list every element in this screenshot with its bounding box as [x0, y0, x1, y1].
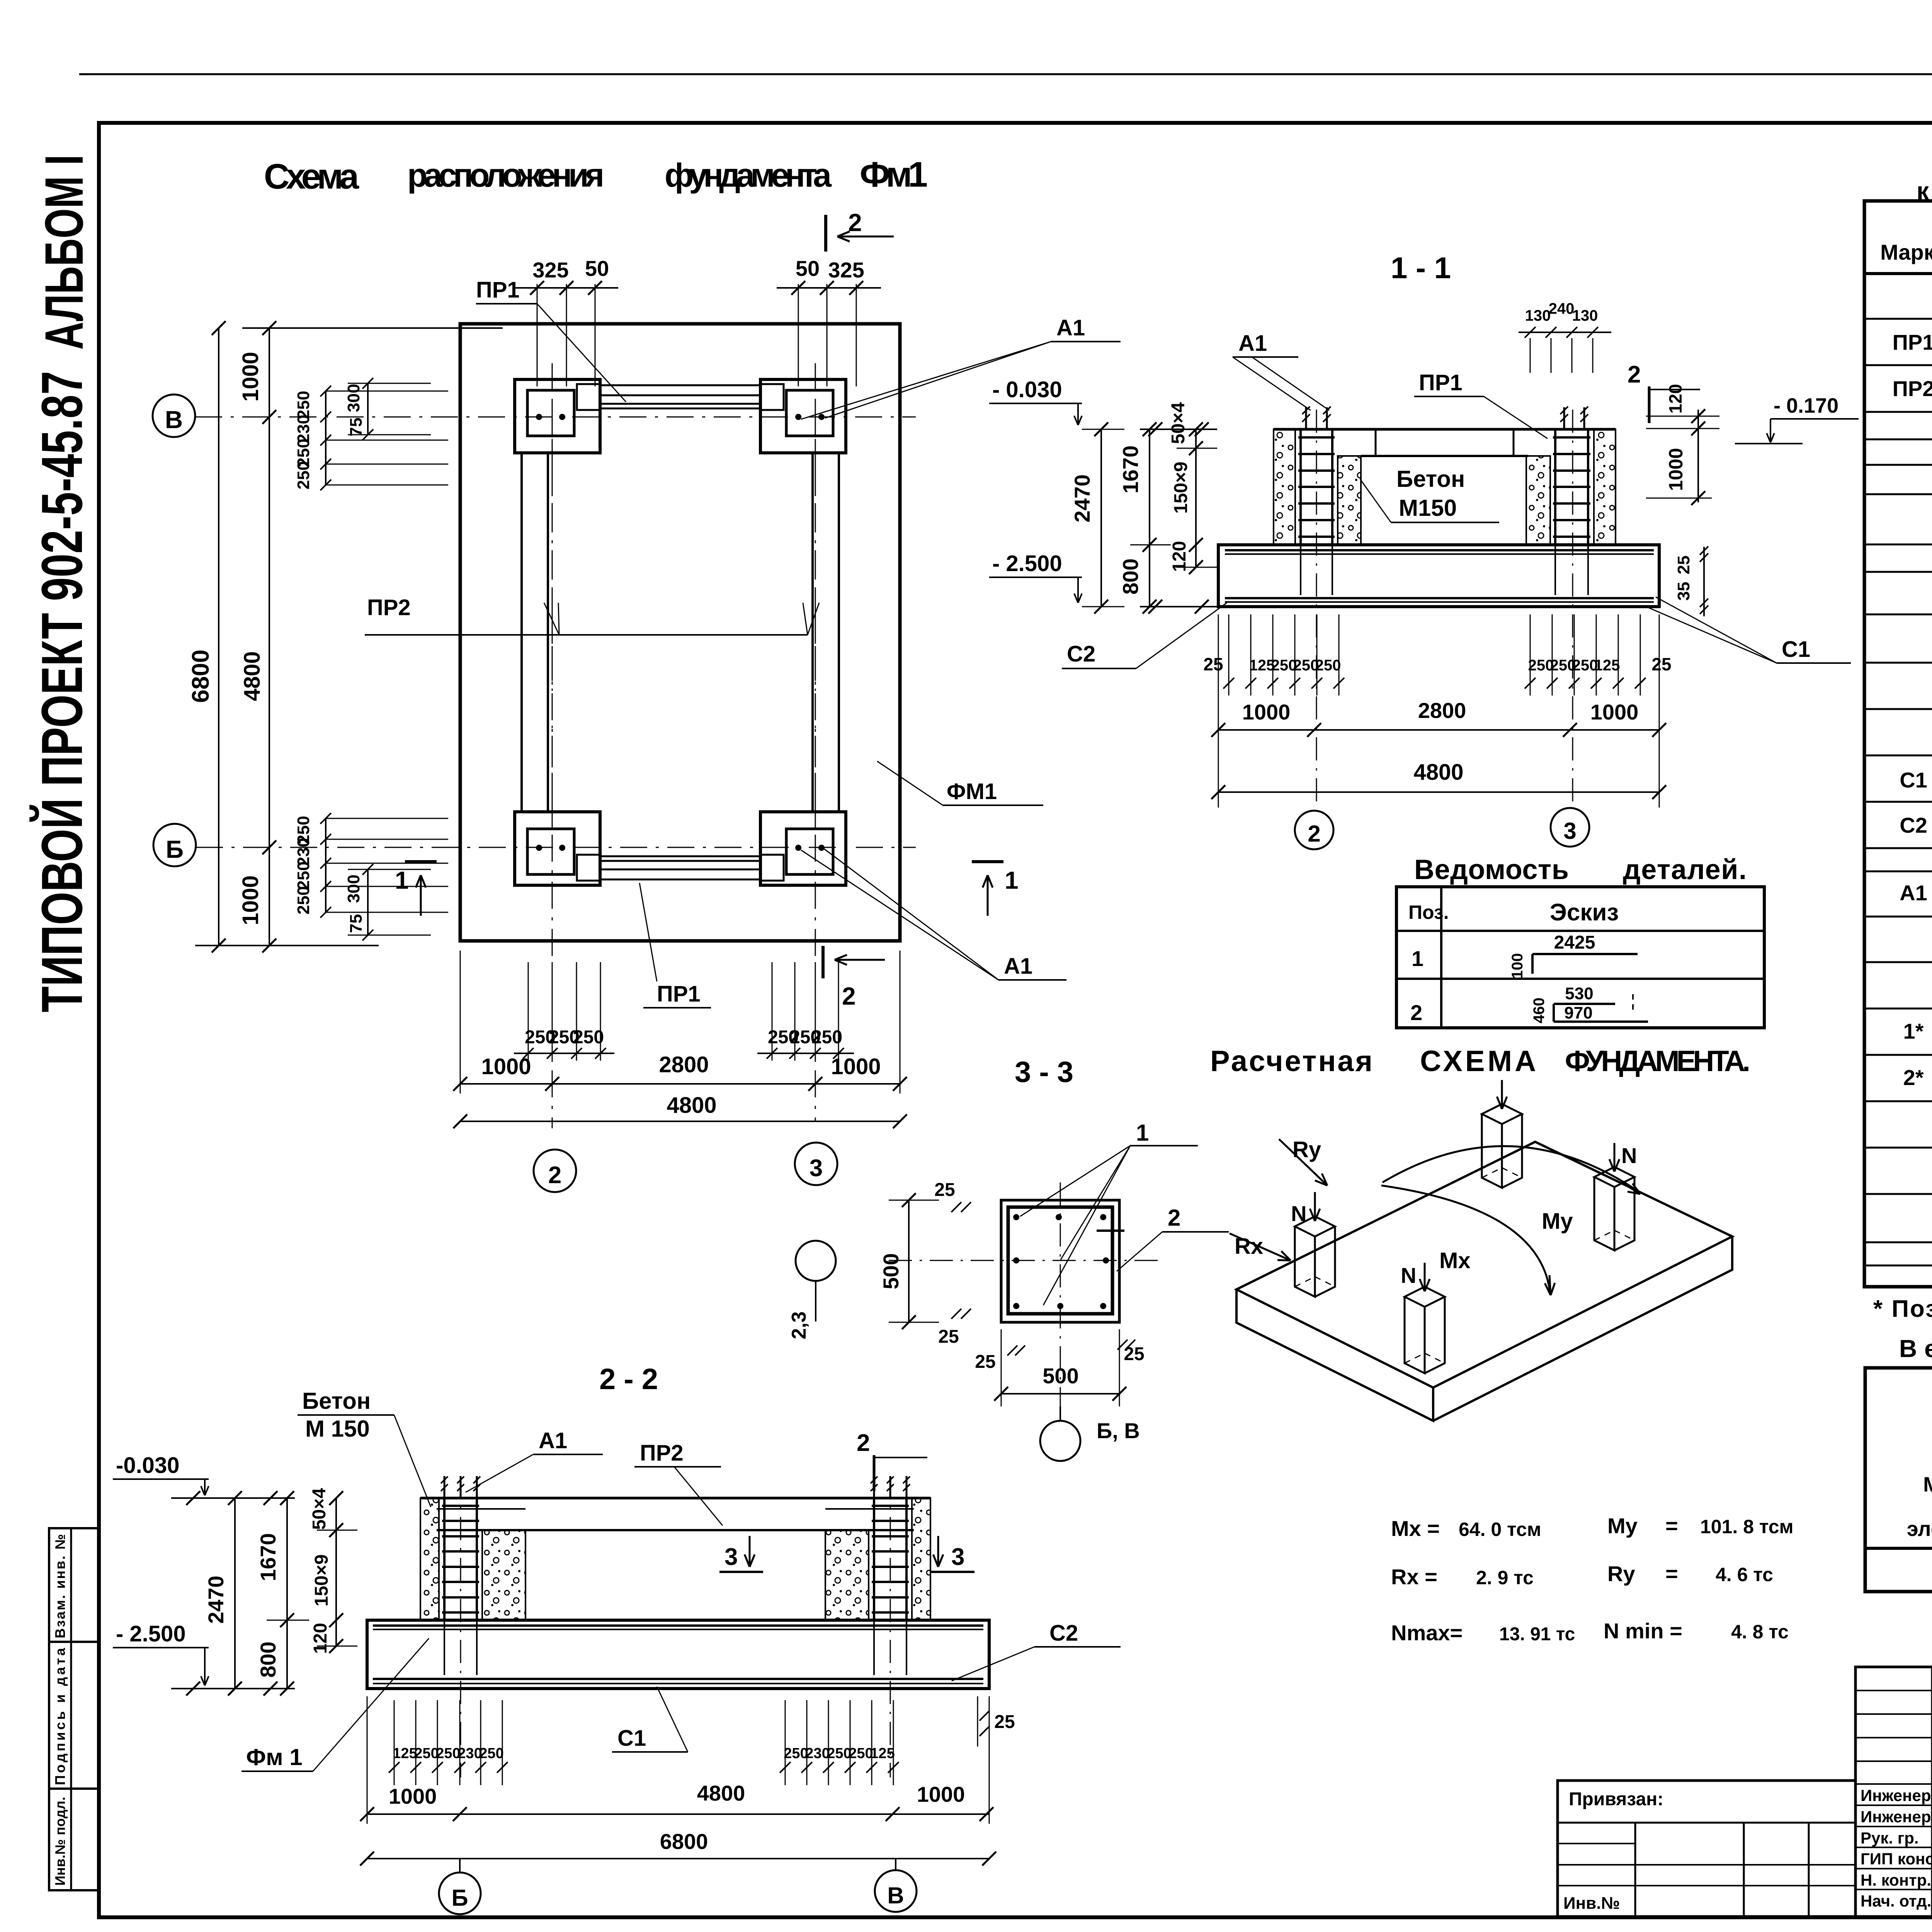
- svg-text:250: 250: [294, 886, 313, 914]
- plan: vertical axis line 2: [552, 363, 553, 1128]
- svg-text:460: 460: [1531, 998, 1548, 1024]
- svg-text:ПР2: ПР2: [1893, 376, 1932, 401]
- svg-text:250: 250: [784, 1745, 808, 1762]
- section 1-1 bottom chains 25/125/250: [1228, 614, 1230, 696]
- plan section cut 2 top: [824, 215, 827, 252]
- plan left mini chain 250/230/250/250 top: [325, 391, 327, 485]
- svg-text:С2: С2: [1900, 813, 1927, 837]
- svg-text:2: 2: [548, 1162, 561, 1189]
- svg-text:С1: С1: [1782, 637, 1810, 662]
- svg-text:1*: 1*: [1903, 1019, 1924, 1043]
- svg-text:1670: 1670: [256, 1533, 280, 1582]
- svg-text:325: 325: [828, 258, 864, 282]
- svg-text:500: 500: [879, 1253, 903, 1289]
- svg-text:Нач. отд.: Нач. отд.: [1861, 1892, 1931, 1910]
- plan: axis line V horizontal: [195, 417, 916, 418]
- svg-text:250: 250: [479, 1745, 503, 1762]
- spec table frame: [1864, 201, 1932, 1287]
- svg-text:2. 9 тс: 2. 9 тс: [1476, 1567, 1534, 1588]
- svg-text:1000: 1000: [238, 875, 263, 925]
- svg-text:250: 250: [294, 461, 313, 489]
- svg-text:=: =: [1665, 1514, 1678, 1538]
- svg-text:35: 35: [1674, 582, 1693, 601]
- svg-text:А1: А1: [1056, 315, 1085, 340]
- svg-text:Бетон: Бетон: [1396, 466, 1465, 492]
- svg-text:2: 2: [857, 1430, 870, 1456]
- svg-text:элемента: элемента: [1907, 1517, 1932, 1541]
- svg-text:Rx: Rx: [1235, 1234, 1263, 1259]
- svg-text:фундамента: фундамента: [665, 157, 832, 194]
- svg-text:Ведомость расхода ста: Ведомость расхода стали на элемент, кг.: [1899, 1335, 1932, 1362]
- svg-text:С1: С1: [1900, 768, 1927, 792]
- section 3-3 dim 500 bottom: [1001, 1329, 1002, 1406]
- plan bottom dimension 4800: [460, 1121, 900, 1122]
- spec table header row line: [1864, 272, 1932, 275]
- svg-text:3: 3: [1563, 818, 1576, 844]
- svg-text:1000: 1000: [481, 1054, 531, 1079]
- section 2-2 axis circle V: [875, 1870, 917, 1912]
- svg-text:Фм 1: Фм 1: [246, 1744, 303, 1770]
- svg-text:СХЕМА: СХЕМА: [1420, 1045, 1536, 1078]
- plan: top lintel beam PR1: [600, 384, 760, 386]
- svg-text:6800: 6800: [187, 650, 214, 703]
- svg-text:4800: 4800: [1413, 760, 1463, 785]
- svg-text:25: 25: [994, 1712, 1015, 1732]
- svg-text:250: 250: [414, 1745, 439, 1762]
- plan bottom mini chains 250x3 left: [528, 962, 529, 1061]
- svg-text:2*: 2*: [1903, 1065, 1924, 1090]
- section 2-2 axis dashdot left: [460, 1476, 461, 1777]
- section 2-2 bottom chains left 125/250x4: [394, 1700, 395, 1785]
- svg-text:- 2.500: - 2.500: [992, 551, 1062, 576]
- svg-text:А1: А1: [1238, 331, 1267, 356]
- svg-text:1: 1: [1412, 946, 1423, 971]
- calc scheme Ry arrow: [1279, 1139, 1327, 1185]
- svg-text:1: 1: [1005, 866, 1019, 894]
- svg-text:1000: 1000: [1665, 448, 1687, 491]
- section 2-2 axis dashdot right: [890, 1476, 891, 1777]
- svg-text:1000: 1000: [917, 1782, 965, 1806]
- section 2-2 anchor bolts into footing: [444, 1620, 445, 1675]
- plan section cut 1 right: [972, 860, 1003, 863]
- plan: top-right column block: [760, 379, 846, 453]
- svg-text:3 - 3: 3 - 3: [1015, 1056, 1073, 1088]
- svg-text:120: 120: [1665, 384, 1685, 414]
- svg-text:ГИП конс.: ГИП конс.: [1861, 1850, 1932, 1868]
- svg-text:ПР1: ПР1: [1419, 370, 1463, 395]
- calc scheme My arc: [1383, 1146, 1638, 1191]
- svg-text:240: 240: [1549, 300, 1575, 317]
- svg-text:Фм1: Фм1: [860, 155, 928, 194]
- svg-text:N min =: N min =: [1604, 1619, 1682, 1643]
- plan: left leg beams PR2: [520, 453, 523, 812]
- svg-text:250: 250: [811, 1027, 842, 1048]
- section 1-1 anchor bolt heads: [1305, 407, 1307, 429]
- calc scheme N force arrows: [1314, 1192, 1316, 1221]
- plan: axis circle V: [153, 395, 195, 437]
- plan section cut 1 left: [405, 860, 437, 863]
- section 1-1 chain 1000/2800/1000: [1218, 614, 1219, 808]
- svg-text:Марка: Марка: [1923, 1473, 1932, 1496]
- svg-text:Му: Му: [1542, 1209, 1573, 1234]
- svg-text:800: 800: [1118, 558, 1143, 594]
- svg-text:ПР1: ПР1: [1893, 330, 1932, 354]
- svg-text:Привязан:: Привязан:: [1569, 1789, 1663, 1810]
- section 1-1 right column: [1594, 429, 1616, 545]
- svg-text:ТИПОВОЙ ПРОЕКТ 902-5-45.87: ТИПОВОЙ ПРОЕКТ 902-5-45.87: [29, 371, 94, 1012]
- svg-text:2: 2: [848, 209, 862, 236]
- svg-text:100: 100: [1509, 953, 1526, 979]
- section 1-1 axis circle 2: [1295, 811, 1333, 849]
- svg-text:А1: А1: [1900, 881, 1927, 905]
- svg-text:2: 2: [1168, 1205, 1180, 1231]
- svg-text:Б: Б: [451, 1885, 468, 1911]
- calc scheme Rx arrow: [1230, 1233, 1291, 1260]
- plan bottom chain 1000/2800/1000: [460, 951, 461, 1094]
- svg-text:2,3: 2,3: [788, 1311, 810, 1339]
- svg-text:Мх =: Мх =: [1391, 1516, 1440, 1541]
- plan: bottom-right column block: [760, 812, 846, 885]
- plan view outer foundation slab rectangle: [460, 324, 900, 941]
- svg-text:ПР2: ПР2: [640, 1440, 684, 1466]
- svg-text:75: 75: [347, 418, 366, 437]
- svg-text:2800: 2800: [659, 1052, 709, 1077]
- svg-text:13. 91 тс: 13. 91 тс: [1499, 1624, 1575, 1645]
- svg-text:500: 500: [1043, 1364, 1078, 1388]
- svg-text:230: 230: [805, 1745, 830, 1762]
- section 3-3 column square: [1001, 1200, 1119, 1322]
- section 1-1 left column: [1274, 429, 1295, 545]
- plan left dimension line 6800: [218, 328, 219, 946]
- svg-text:325: 325: [532, 258, 568, 282]
- svg-text:970: 970: [1564, 1003, 1592, 1022]
- parts list table: [1396, 887, 1764, 1028]
- section 3-3 centerlines: [1060, 1182, 1061, 1406]
- svg-text:-0.030: -0.030: [116, 1453, 179, 1478]
- svg-text:25: 25: [1203, 654, 1223, 674]
- svg-text:1: 1: [1136, 1120, 1149, 1146]
- svg-text:ФМ1: ФМ1: [947, 779, 997, 804]
- section 1-1 axis dashdot right: [1572, 410, 1573, 806]
- section 2-2 anchor bolt heads: [444, 1476, 446, 1498]
- svg-text:250: 250: [849, 1745, 873, 1762]
- section 3-3 crosshair: [1097, 1230, 1124, 1232]
- svg-text:АЛЬБОМ I: АЛЬБОМ I: [34, 155, 94, 350]
- section 2-2 top edge: [420, 1497, 930, 1500]
- section 1-1 top edge: [1274, 428, 1616, 431]
- svg-text:М150: М150: [1399, 495, 1457, 521]
- svg-text:25: 25: [934, 1180, 955, 1200]
- svg-text:101. 8 тсм: 101. 8 тсм: [1700, 1516, 1794, 1537]
- svg-text:120: 120: [310, 1623, 331, 1654]
- svg-text:Б, В: Б, В: [1097, 1418, 1140, 1443]
- svg-text:250: 250: [436, 1745, 460, 1762]
- svg-text:250: 250: [294, 861, 313, 889]
- svg-text:Rу: Rу: [1607, 1561, 1635, 1586]
- svg-text:50: 50: [585, 256, 609, 281]
- plan section cut 2 bottom: [821, 946, 825, 978]
- calc scheme pillar bottom: [1405, 1287, 1445, 1307]
- plan axis circle 3: [795, 1143, 837, 1185]
- section 1-1 axis dashdot left: [1316, 410, 1317, 808]
- svg-text:ПР2: ПР2: [367, 595, 411, 620]
- plan left dimension chain 1000/4800/1000: [269, 328, 270, 946]
- section 3-3 axis circle B,V: [1040, 1421, 1080, 1461]
- title block signature column: [1855, 1667, 1932, 1917]
- svg-text:150×9: 150×9: [311, 1554, 332, 1607]
- svg-text:1670: 1670: [1118, 446, 1143, 494]
- svg-text:М 150: М 150: [305, 1416, 370, 1442]
- svg-text:Rх =: Rх =: [1391, 1565, 1437, 1589]
- svg-text:120: 120: [1169, 541, 1190, 572]
- svg-text:300: 300: [344, 874, 363, 903]
- plan: axis line B horizontal: [196, 847, 916, 848]
- svg-text:50×4: 50×4: [1168, 402, 1189, 444]
- svg-text:Ry: Ry: [1293, 1137, 1321, 1162]
- svg-text:4. 6 тс: 4. 6 тс: [1716, 1564, 1773, 1585]
- section 2-2 dimension 6800: [367, 1858, 989, 1859]
- svg-text:250: 250: [573, 1027, 604, 1048]
- sheet top edge line: [79, 73, 1932, 75]
- svg-text:Б: Б: [166, 835, 184, 863]
- svg-text:2: 2: [1308, 821, 1320, 847]
- plan: bottom lintel beam PR1: [600, 855, 760, 857]
- section 1-1 dim 130/240/130: [1519, 332, 1611, 333]
- calc scheme pillar left: [1295, 1216, 1335, 1236]
- plan bottom mini chains 250x3 right: [772, 962, 773, 1061]
- plan mini chain 300/75 bottom: [367, 869, 369, 935]
- svg-text:Инженер: Инженер: [1861, 1808, 1931, 1826]
- plan: top-left column block: [515, 379, 600, 453]
- svg-text:250: 250: [827, 1745, 851, 1762]
- section 1-1 lintel beam bottom: [1361, 455, 1528, 457]
- svg-text:Поз.: Поз.: [1408, 901, 1449, 923]
- svg-text:* Позиции 1 и 2 смотри: * Позиции 1 и 2 смотри ведомость деталей…: [1873, 1296, 1932, 1322]
- svg-text:Рук. гр.: Рук. гр.: [1861, 1829, 1919, 1847]
- svg-text:25: 25: [938, 1327, 959, 1347]
- svg-text:800: 800: [256, 1641, 280, 1677]
- svg-text:Му: Му: [1607, 1514, 1638, 1538]
- svg-text:Инв.№ подл.: Инв.№ подл.: [52, 1797, 68, 1886]
- svg-text:В: В: [887, 1883, 904, 1908]
- section 1-1 left dimension stack: [1100, 429, 1102, 607]
- svg-text:ПР1: ПР1: [476, 277, 520, 303]
- section 2-2 left dimension stack: [234, 1498, 236, 1689]
- svg-text:деталей.: деталей.: [1623, 854, 1747, 885]
- svg-text:- 0.170: - 0.170: [1774, 394, 1838, 417]
- svg-text:75: 75: [347, 914, 366, 933]
- section 1-1 footing slab: [1218, 545, 1659, 607]
- svg-text:ПР1: ПР1: [657, 981, 701, 1007]
- svg-text:125: 125: [393, 1745, 417, 1762]
- steel consumption table: [1865, 1368, 1932, 1592]
- section 2-2 left column: [420, 1498, 439, 1620]
- svg-text:150×9: 150×9: [1171, 462, 1191, 514]
- svg-text:N: N: [1401, 1263, 1416, 1287]
- svg-text:1000: 1000: [1242, 700, 1291, 724]
- svg-text:50×4: 50×4: [309, 1488, 330, 1530]
- plan mini chain 75/300 top: [367, 383, 369, 435]
- svg-text:Инженер: Инженер: [1861, 1786, 1931, 1804]
- svg-text:Ведомость: Ведомость: [1414, 854, 1569, 885]
- svg-text:2800: 2800: [1418, 698, 1466, 723]
- svg-text:А1: А1: [1004, 954, 1032, 979]
- section 2-2 footing slab: [367, 1620, 989, 1689]
- svg-text:2: 2: [1410, 1000, 1422, 1025]
- svg-text:2425: 2425: [1554, 932, 1595, 953]
- svg-text:1 - 1: 1 - 1: [1391, 251, 1451, 285]
- section 1-1 axis circle 3: [1551, 808, 1589, 847]
- svg-text:64. 0 тсм: 64. 0 тсм: [1459, 1519, 1541, 1540]
- section 1-1 right dimension stack: [1697, 410, 1699, 502]
- svg-text:Схема: Схема: [264, 157, 359, 196]
- section 3-3 rebar dots: [1013, 1214, 1019, 1220]
- svg-text:25: 25: [1674, 556, 1693, 575]
- svg-text:125: 125: [870, 1745, 895, 1762]
- svg-text:А1: А1: [539, 1428, 567, 1453]
- plan: axis circle B: [153, 824, 196, 866]
- svg-text:2470: 2470: [1070, 474, 1094, 523]
- svg-text:N: N: [1291, 1201, 1306, 1226]
- plan top dimension 50/325 right: [798, 284, 799, 386]
- section 2-2 lintel beam PR2 bottom: [437, 1529, 914, 1531]
- left margin stamp boxes: [49, 1528, 99, 1890]
- svg-text:4800: 4800: [240, 651, 265, 701]
- svg-text:3: 3: [951, 1544, 964, 1570]
- calc scheme Mx arc: [1381, 1185, 1550, 1294]
- svg-text:Взам. инв. №: Взам. инв. №: [52, 1534, 68, 1638]
- svg-text:130: 130: [1572, 307, 1598, 324]
- svg-text:6800: 6800: [660, 1829, 708, 1854]
- svg-text:2470: 2470: [204, 1576, 228, 1624]
- plan: right leg beams PR2: [811, 453, 814, 812]
- svg-text:- 0.030: - 0.030: [992, 377, 1062, 402]
- svg-text:2: 2: [842, 982, 856, 1010]
- section 2-2 right column: [912, 1498, 930, 1620]
- svg-text:Инв.№: Инв.№: [1563, 1894, 1620, 1913]
- section 2-2 chain 1000/4800/1000: [367, 1696, 368, 1824]
- svg-text:125: 125: [1594, 657, 1620, 674]
- svg-text:25: 25: [1651, 654, 1671, 674]
- svg-text:3: 3: [724, 1544, 738, 1570]
- svg-text:В: В: [165, 406, 183, 434]
- svg-text:1000: 1000: [831, 1054, 881, 1079]
- title block privyazan box: [1558, 1781, 1855, 1917]
- svg-text:250: 250: [1315, 657, 1341, 674]
- svg-text:Мх: Мх: [1439, 1248, 1471, 1273]
- svg-text:300: 300: [344, 384, 363, 412]
- svg-text:530: 530: [1565, 984, 1593, 1003]
- calc scheme slab (isometric): [1236, 1142, 1732, 1388]
- svg-text:- 2.500: - 2.500: [116, 1621, 186, 1646]
- svg-text:4800: 4800: [697, 1781, 745, 1805]
- svg-text:1: 1: [395, 866, 409, 894]
- svg-text:N: N: [1621, 1143, 1637, 1168]
- svg-text:=: =: [1665, 1561, 1678, 1586]
- svg-text:4. 8 тс: 4. 8 тс: [1731, 1621, 1789, 1643]
- plan axis circle 2: [534, 1150, 576, 1192]
- svg-text:расположения: расположения: [407, 157, 604, 194]
- svg-text:1000: 1000: [389, 1784, 437, 1808]
- svg-text:50: 50: [796, 256, 820, 281]
- svg-text:С2: С2: [1049, 1621, 1078, 1646]
- plan left mini chain 250/230/250/250 bottom: [325, 818, 327, 912]
- svg-text:130: 130: [1525, 307, 1551, 324]
- plan: vertical axis line 3: [815, 363, 816, 1121]
- plan: bottom-left column block: [515, 812, 600, 885]
- calc scheme pillar top: [1482, 1104, 1522, 1124]
- svg-text:Марка: Марка: [1880, 240, 1932, 264]
- svg-text:1000: 1000: [238, 352, 263, 401]
- svg-text:230: 230: [457, 1745, 482, 1762]
- section 3-3 axis circle 2,3: [796, 1241, 836, 1281]
- plan top dimension 325/50 left: [537, 284, 538, 386]
- section 1-1 dimension 4800: [1218, 791, 1659, 793]
- section 2-2 axis circle B: [439, 1872, 481, 1914]
- section 2-2 bottom chains right 250x4/125: [785, 1700, 786, 1785]
- svg-text:2: 2: [1628, 361, 1641, 388]
- section 1-1 anchor bolts into footing: [1300, 545, 1301, 595]
- svg-text:Эскиз: Эскиз: [1550, 899, 1619, 926]
- svg-text:С2: С2: [1067, 641, 1095, 667]
- svg-text:Расчетная: Расчетная: [1210, 1045, 1372, 1078]
- calc scheme pillar right: [1594, 1167, 1634, 1187]
- svg-text:ФУНДАМЕНТА.: ФУНДАМЕНТА.: [1565, 1045, 1750, 1078]
- svg-text:3: 3: [810, 1155, 823, 1182]
- svg-text:Nmax=: Nmax=: [1391, 1621, 1463, 1645]
- svg-text:4800: 4800: [667, 1093, 716, 1118]
- svg-text:Бетон: Бетон: [302, 1388, 371, 1414]
- svg-text:1000: 1000: [1590, 700, 1639, 724]
- svg-text:2 - 2: 2 - 2: [599, 1363, 658, 1396]
- svg-text:25: 25: [975, 1352, 995, 1372]
- section 3-3 dim 500 vertical: [908, 1200, 910, 1322]
- svg-text:Н. контр.: Н. контр.: [1861, 1871, 1931, 1889]
- svg-text:С1: С1: [617, 1726, 646, 1751]
